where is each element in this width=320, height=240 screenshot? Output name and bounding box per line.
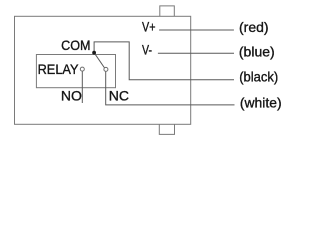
svg-text:(blue): (blue) bbox=[239, 44, 275, 60]
svg-text:RELAY: RELAY bbox=[38, 61, 79, 77]
svg-text:NO: NO bbox=[61, 87, 82, 103]
svg-text:V+: V+ bbox=[142, 19, 156, 35]
svg-text:V-: V- bbox=[142, 42, 152, 58]
svg-text:(red): (red) bbox=[239, 19, 269, 35]
svg-text:NC: NC bbox=[109, 87, 129, 103]
svg-text:COM: COM bbox=[61, 37, 90, 53]
svg-text:(white): (white) bbox=[240, 95, 282, 111]
svg-text:(black): (black) bbox=[239, 68, 278, 84]
